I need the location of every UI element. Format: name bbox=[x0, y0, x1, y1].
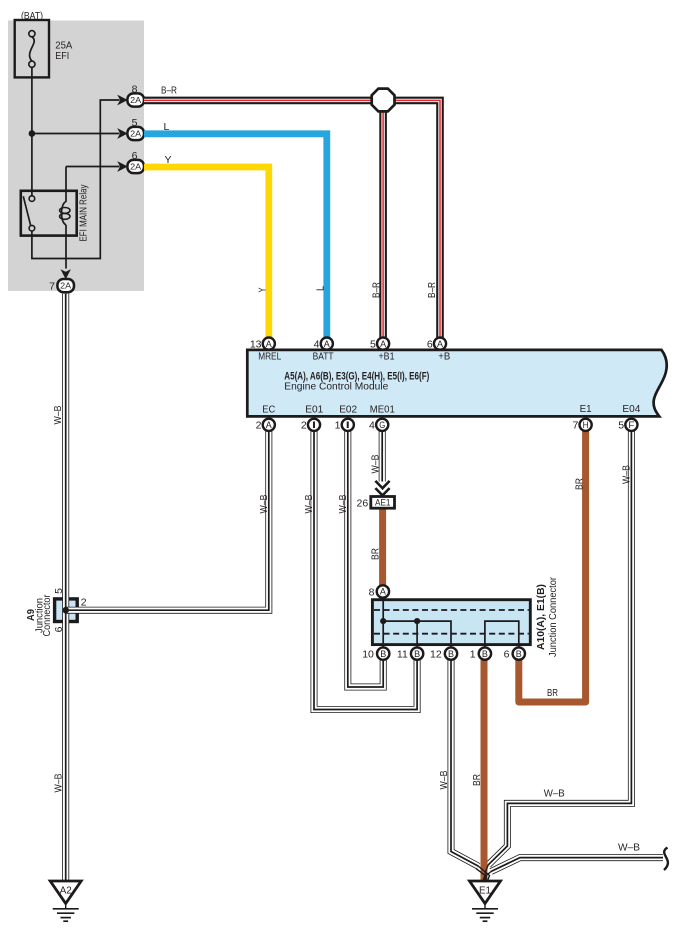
svg-text:W–B: W–B bbox=[439, 770, 450, 789]
svg-text:Engine Control Module: Engine Control Module bbox=[284, 382, 388, 393]
svg-text:A2: A2 bbox=[60, 886, 72, 897]
svg-text:L: L bbox=[164, 121, 170, 133]
svg-text:5: 5 bbox=[618, 420, 624, 432]
svg-text:A5(A), A6(B), E3(G), E4(H), E5: A5(A), A6(B), E3(G), E4(H), E5(I), E6(F) bbox=[284, 370, 429, 382]
svg-text:I: I bbox=[311, 420, 317, 430]
svg-text:W–B: W–B bbox=[370, 454, 381, 473]
svg-text:W–B: W–B bbox=[53, 405, 64, 424]
svg-text:A10(A), E1(B): A10(A), E1(B) bbox=[536, 584, 547, 650]
svg-text:EC: EC bbox=[262, 404, 275, 416]
svg-text:W–B: W–B bbox=[54, 773, 65, 792]
svg-text:G: G bbox=[379, 420, 385, 430]
svg-text:EFI: EFI bbox=[55, 50, 69, 62]
svg-text:8: 8 bbox=[132, 84, 138, 96]
svg-text:BATT: BATT bbox=[313, 351, 334, 363]
svg-text:1: 1 bbox=[470, 648, 476, 660]
svg-text:W–B: W–B bbox=[259, 494, 270, 513]
svg-text:W–B: W–B bbox=[618, 842, 640, 854]
svg-text:AE1: AE1 bbox=[375, 498, 391, 508]
svg-text:2: 2 bbox=[256, 420, 262, 432]
svg-text:2: 2 bbox=[301, 420, 307, 432]
svg-text:EFI MAIN Relay: EFI MAIN Relay bbox=[79, 185, 90, 242]
svg-text:B–R: B–R bbox=[427, 282, 438, 298]
svg-text:Y: Y bbox=[258, 287, 269, 292]
svg-text:(BAT): (BAT) bbox=[21, 10, 43, 22]
svg-text:E1: E1 bbox=[479, 886, 491, 897]
svg-text:11: 11 bbox=[397, 648, 408, 660]
svg-text:B–R: B–R bbox=[161, 85, 177, 97]
svg-text:A: A bbox=[266, 339, 272, 349]
svg-text:4: 4 bbox=[369, 420, 375, 432]
svg-text:A: A bbox=[266, 420, 272, 430]
svg-text:8: 8 bbox=[369, 586, 375, 598]
svg-text:26: 26 bbox=[357, 497, 369, 509]
svg-text:F: F bbox=[628, 420, 635, 430]
svg-text:ME01: ME01 bbox=[370, 404, 395, 416]
svg-text:2A: 2A bbox=[130, 162, 141, 172]
svg-text:5: 5 bbox=[370, 338, 376, 350]
svg-text:W–B: W–B bbox=[622, 465, 633, 484]
svg-text:A: A bbox=[380, 339, 386, 349]
svg-text:10: 10 bbox=[362, 648, 374, 660]
svg-text:E01: E01 bbox=[305, 404, 323, 416]
svg-text:W–B: W–B bbox=[338, 494, 349, 513]
svg-text:6: 6 bbox=[427, 338, 433, 350]
svg-text:2A: 2A bbox=[130, 129, 141, 139]
svg-text:H: H bbox=[583, 420, 589, 430]
svg-text:6: 6 bbox=[53, 626, 65, 632]
svg-text:12: 12 bbox=[430, 648, 442, 660]
svg-text:+B1: +B1 bbox=[379, 351, 395, 363]
svg-text:B: B bbox=[482, 649, 488, 659]
svg-text:2: 2 bbox=[81, 597, 87, 609]
svg-text:BR: BR bbox=[547, 687, 558, 699]
svg-text:E04: E04 bbox=[622, 403, 640, 415]
svg-text:L: L bbox=[316, 286, 327, 291]
svg-text:5: 5 bbox=[132, 117, 138, 129]
svg-text:Junction Connector: Junction Connector bbox=[548, 576, 559, 657]
svg-text:B: B bbox=[448, 649, 454, 659]
svg-text:E1: E1 bbox=[580, 403, 592, 415]
svg-text:B: B bbox=[516, 649, 522, 659]
svg-text:7: 7 bbox=[49, 280, 55, 292]
svg-text:BR: BR bbox=[370, 548, 381, 560]
svg-text:A: A bbox=[380, 587, 386, 597]
svg-text:I: I bbox=[345, 420, 351, 430]
svg-text:BR: BR bbox=[472, 774, 483, 786]
svg-text:A: A bbox=[324, 339, 330, 349]
svg-text:W–B: W–B bbox=[544, 788, 565, 800]
svg-text:B: B bbox=[380, 649, 386, 659]
svg-text:4: 4 bbox=[314, 338, 320, 350]
svg-text:BR: BR bbox=[574, 478, 585, 490]
svg-text:Y: Y bbox=[165, 154, 172, 166]
svg-text:6: 6 bbox=[504, 648, 510, 660]
svg-text:B–R: B–R bbox=[371, 282, 382, 298]
svg-text:1: 1 bbox=[335, 420, 341, 432]
svg-text:+B: +B bbox=[438, 351, 450, 363]
svg-text:E02: E02 bbox=[339, 404, 357, 416]
svg-text:2A: 2A bbox=[60, 281, 71, 291]
svg-text:5: 5 bbox=[53, 588, 65, 594]
svg-text:13: 13 bbox=[250, 338, 262, 350]
svg-text:W–B: W–B bbox=[304, 494, 315, 513]
svg-text:2A: 2A bbox=[130, 95, 141, 105]
svg-text:6: 6 bbox=[132, 150, 138, 162]
svg-text:B: B bbox=[414, 649, 420, 659]
svg-text:Connector: Connector bbox=[42, 594, 53, 637]
svg-text:A: A bbox=[437, 339, 443, 349]
svg-text:MREL: MREL bbox=[258, 351, 281, 363]
svg-text:7: 7 bbox=[572, 420, 578, 432]
